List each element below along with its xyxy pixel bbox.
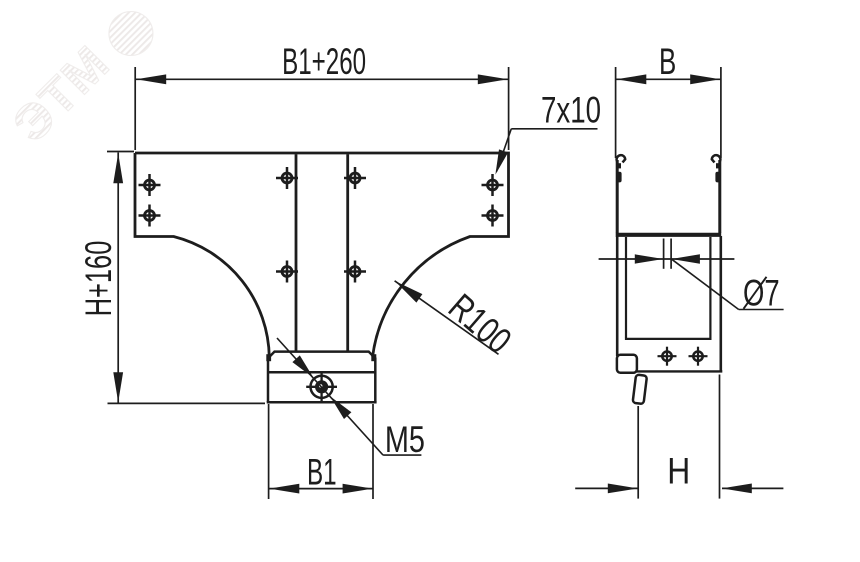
dimension Ø7 <box>599 254 784 313</box>
flange hole top-left <box>139 174 161 196</box>
dimension B1+260 <box>135 41 508 150</box>
svg-text:H+160: H+160 <box>77 241 119 317</box>
screw M5 symbol <box>306 371 337 402</box>
flange hole bottom-left <box>139 205 161 227</box>
side view inner wall left <box>625 237 627 338</box>
side view inner bottom line <box>625 338 712 340</box>
right hook curl <box>712 155 721 162</box>
watermark ЭТМ logo <box>2 0 162 153</box>
hole edge line right (Ø7) <box>670 239 672 269</box>
stem hole bottom-right <box>344 261 366 283</box>
label M5 with leader <box>277 338 425 461</box>
flange hole bottom-right <box>482 205 504 227</box>
side view channel bottom bar <box>616 233 722 237</box>
hole edge line left (Ø7) <box>663 239 665 269</box>
clamp tab <box>633 375 647 405</box>
side view outer wall right lower <box>719 236 722 372</box>
clamp box with chamfer <box>267 352 377 403</box>
front view stem left wall <box>295 154 298 351</box>
stem hole bottom-left <box>276 261 298 283</box>
flange hole top-right <box>482 174 504 196</box>
side view outer wall left lower <box>616 236 619 356</box>
side view left wall <box>616 160 619 233</box>
dimension B (side view) <box>616 40 721 158</box>
label R100 with leader arrow <box>395 281 520 362</box>
junction blob left <box>266 354 271 361</box>
dimension H+160 <box>77 152 265 404</box>
svg-text:H: H <box>667 451 690 492</box>
svg-text:B1+260: B1+260 <box>282 41 366 82</box>
svg-text:B: B <box>659 40 676 82</box>
svg-text:O7: O7 <box>743 273 780 314</box>
dimension B1 <box>269 404 373 499</box>
svg-text:M5: M5 <box>385 420 425 461</box>
side hole right <box>689 347 708 366</box>
side hole left <box>658 347 677 366</box>
label 7x10 with leader <box>495 88 601 174</box>
front view stem right wall <box>346 154 349 351</box>
side view bottom edge <box>635 370 722 372</box>
stem hole top-right <box>344 167 366 189</box>
side view right wall <box>718 160 721 233</box>
svg-text:7x10: 7x10 <box>541 88 601 130</box>
front view T-piece outline <box>135 153 509 358</box>
side view inner wall right <box>709 237 711 338</box>
junction blob right <box>371 354 376 361</box>
dimension H <box>575 375 783 499</box>
stem hole top-left <box>276 167 298 189</box>
svg-text:B1: B1 <box>307 451 337 492</box>
clamp clip box <box>617 355 637 373</box>
left hook curl <box>617 155 626 162</box>
